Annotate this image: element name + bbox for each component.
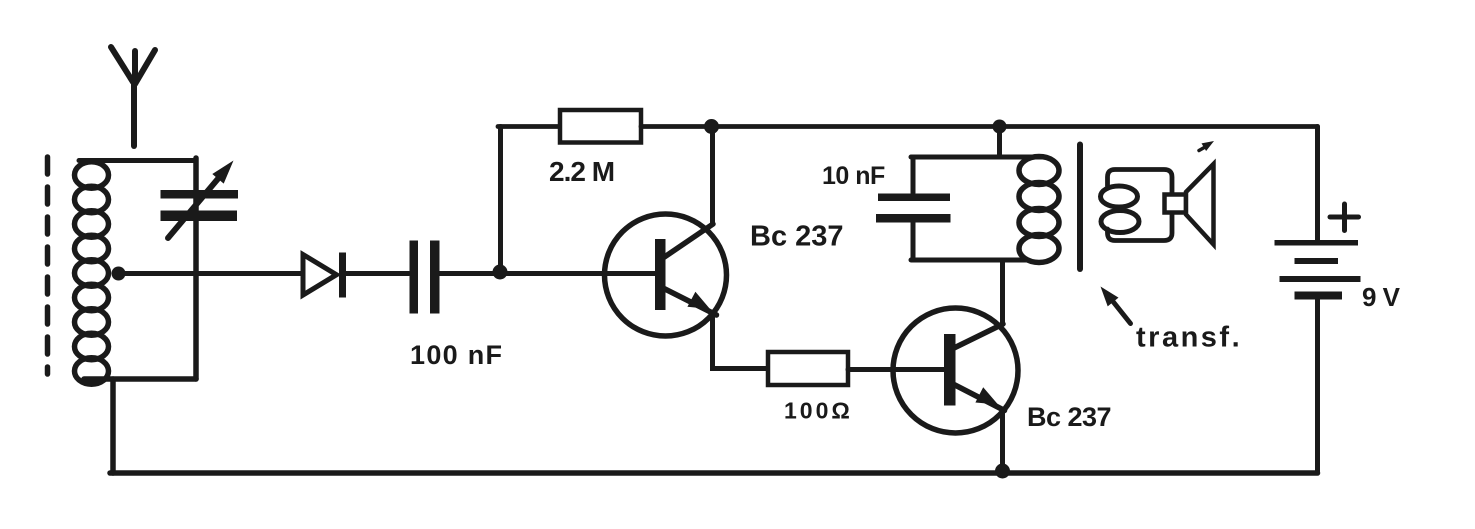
svg-text:2.2 M: 2.2 M bbox=[549, 156, 614, 187]
svg-text:100Ω: 100Ω bbox=[784, 398, 853, 424]
svg-text:transf.: transf. bbox=[1136, 322, 1242, 354]
svg-text:Bc 237: Bc 237 bbox=[750, 221, 844, 253]
svg-text:9 V: 9 V bbox=[1362, 282, 1401, 312]
svg-text:100 nF: 100 nF bbox=[410, 340, 503, 370]
svg-text:10 nF: 10 nF bbox=[822, 162, 885, 190]
svg-text:Bc 237: Bc 237 bbox=[1027, 402, 1111, 432]
